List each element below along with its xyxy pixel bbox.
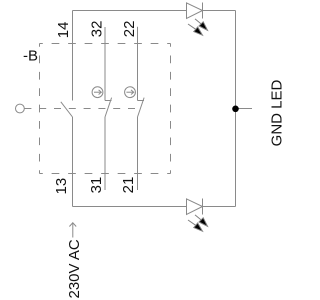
svg-text:GND LED: GND LED [269, 79, 286, 146]
svg-text:230V AC: 230V AC [66, 239, 83, 298]
svg-text:14: 14 [55, 22, 72, 39]
svg-text:21: 21 [120, 177, 137, 194]
svg-text:-B: -B [23, 48, 38, 65]
svg-text:13: 13 [53, 178, 70, 195]
svg-text:32: 32 [89, 21, 106, 38]
svg-text:22: 22 [121, 21, 138, 38]
svg-text:31: 31 [88, 177, 105, 194]
